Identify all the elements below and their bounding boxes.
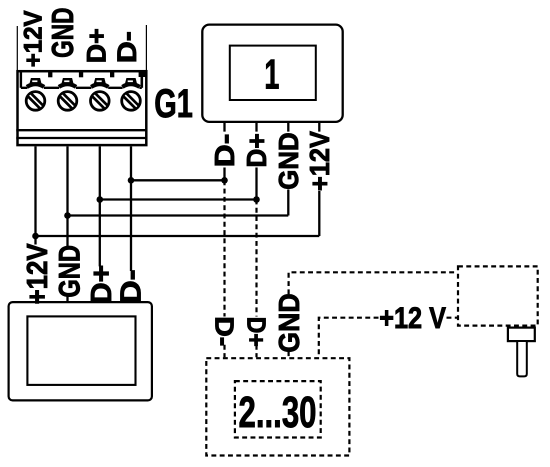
svg-text:GND: GND — [274, 293, 306, 352]
svg-text:GND: GND — [45, 8, 80, 58]
svg-text:D+: D+ — [242, 317, 272, 347]
svg-text:GND: GND — [273, 132, 304, 189]
svg-text:2...30: 2...30 — [239, 388, 317, 437]
svg-text:GND: GND — [54, 245, 87, 298]
svg-text:+12V: +12V — [20, 10, 48, 67]
svg-text:1: 1 — [264, 51, 279, 98]
svg-text:+12V: +12V — [304, 131, 335, 191]
svg-text:D-: D- — [115, 269, 147, 304]
svg-text:+12V: +12V — [22, 243, 54, 305]
svg-text:D-: D- — [209, 134, 240, 168]
svg-text:G1: G1 — [154, 82, 193, 126]
svg-text:D+: D+ — [81, 28, 111, 63]
svg-text:+12 V: +12 V — [379, 302, 446, 335]
svg-text:D-: D- — [210, 316, 240, 346]
svg-text:D+: D+ — [241, 133, 272, 167]
svg-text:D+: D+ — [86, 265, 118, 305]
svg-text:D-: D- — [112, 31, 142, 63]
